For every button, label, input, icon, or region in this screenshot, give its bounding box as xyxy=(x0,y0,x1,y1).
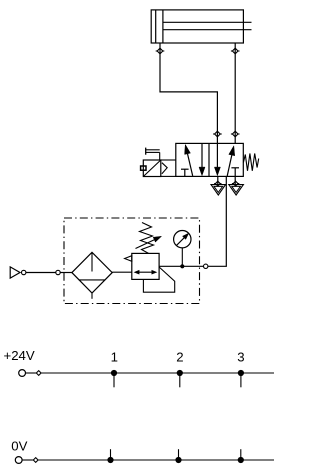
valve port 2 connector xyxy=(231,131,240,137)
node 2 junction and stub xyxy=(177,370,183,387)
solenoid coil xyxy=(143,160,161,177)
0V rail start connector xyxy=(22,458,38,463)
svg-text:0V: 0V xyxy=(11,438,27,453)
valve port 4 connector xyxy=(213,131,222,137)
node 1 junction and stub xyxy=(111,370,117,387)
0V node c junction and stub xyxy=(238,449,244,463)
cylinder piston xyxy=(156,10,163,43)
valve port 5 connector xyxy=(214,181,221,186)
tube node to filter xyxy=(60,272,72,274)
valve port 3 stub xyxy=(234,176,236,184)
+24V rail start connector xyxy=(26,371,42,376)
solenoid electrical terminal fork xyxy=(146,148,160,160)
valve right position: blocked port 3 xyxy=(231,168,239,176)
gauge stem xyxy=(181,248,183,266)
regulator pilot relief loop xyxy=(143,267,174,292)
0V node a junction and stub xyxy=(107,449,113,463)
pressure gauge xyxy=(174,231,191,248)
regulator relief vent triangle xyxy=(125,256,132,262)
silencer on port 5 xyxy=(211,185,226,195)
pilot section frame xyxy=(161,160,176,176)
+24V rail wire xyxy=(41,372,274,374)
0V rail start circle xyxy=(15,457,22,464)
valve right position: flow path 4 to 5 arrow xyxy=(214,143,220,175)
tube node circle to regulator output xyxy=(159,265,203,267)
svg-text:3: 3 xyxy=(237,350,244,365)
gauge junction dot xyxy=(180,264,184,268)
tube source to service unit xyxy=(26,272,56,274)
valve left position: flow path 1 to 4 arrow xyxy=(185,145,193,176)
valve port 5 stub xyxy=(217,176,219,184)
source output node circle xyxy=(22,270,26,274)
cylinder piston rod xyxy=(163,22,252,29)
service unit input node circle xyxy=(56,270,60,274)
compressed air source xyxy=(10,267,20,278)
wire cylinder left port to valve port 4 xyxy=(160,43,217,143)
regulator adjustable spring xyxy=(136,223,162,254)
node 3 junction and stub xyxy=(238,370,244,387)
0V node b junction and stub xyxy=(175,449,181,463)
silencer on port 3 xyxy=(229,185,244,195)
valve port 3 connector xyxy=(232,181,239,186)
solenoid electrical pin square xyxy=(141,166,146,170)
regulator flow passage double arrow xyxy=(134,270,158,275)
pressure regulator body xyxy=(132,253,159,279)
valve left position: flow path 2 to 3 arrow xyxy=(199,143,205,175)
cylinder left port connector xyxy=(156,48,165,54)
pilot chevron xyxy=(162,163,167,174)
cylinder right port connector xyxy=(231,48,240,54)
valve left position: blocked port 5 xyxy=(181,169,189,176)
svg-text:+24V: +24V xyxy=(4,348,35,363)
+24V rail start circle xyxy=(19,370,26,377)
service unit dash-dot enclosure xyxy=(64,218,200,304)
tube filter to regulator xyxy=(112,271,132,273)
service unit output node circle xyxy=(204,264,208,268)
svg-text:1: 1 xyxy=(111,350,118,365)
filter with water separator xyxy=(72,252,112,298)
double-acting cylinder body xyxy=(151,10,243,43)
valve return spring xyxy=(243,154,258,171)
svg-text:2: 2 xyxy=(176,350,183,365)
0V rail wire xyxy=(38,459,274,461)
valve right position: flow path 1 to 2 arrow xyxy=(227,146,235,176)
5/2-way valve body xyxy=(176,143,244,176)
supply tube valve port 1 to service unit output xyxy=(208,176,226,266)
wire cylinder right port to valve port 2 xyxy=(234,43,236,143)
